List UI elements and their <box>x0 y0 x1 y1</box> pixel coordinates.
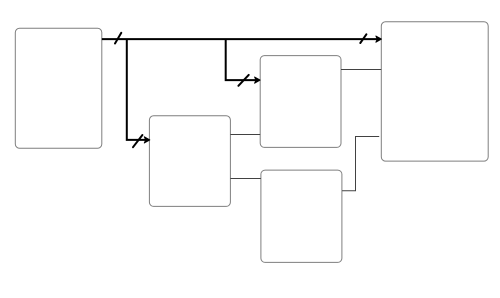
bus-width slash on U2 branch <box>133 135 142 147</box>
arrowhead into U2 <box>144 137 150 143</box>
bus-width slash near U1 <box>115 33 121 44</box>
bus-width slash near U5 <box>360 34 366 43</box>
block U4 (bottom box) <box>261 170 342 262</box>
arrowhead into U3 <box>255 77 261 83</box>
wire: U3 to U5 <box>341 69 381 71</box>
wire: branch from bus down to U2 <box>127 39 146 140</box>
block U3 (middle box) <box>260 56 341 148</box>
wire: U2 to U4 <box>230 178 261 180</box>
arrowhead into U5 <box>376 36 382 42</box>
block U2 (lower-left box) <box>149 116 230 207</box>
wire: main bus from U1 to U5 <box>102 38 378 40</box>
bus-width slash on U3 branch <box>238 75 248 86</box>
wire: branch from bus down to U3 <box>226 39 257 80</box>
block U1 (left large box) <box>15 28 102 148</box>
wire: U5 to U4 (stepped) <box>342 137 379 191</box>
block U5 (right large box) <box>381 22 488 161</box>
wire: U2 to U3 <box>230 134 260 136</box>
